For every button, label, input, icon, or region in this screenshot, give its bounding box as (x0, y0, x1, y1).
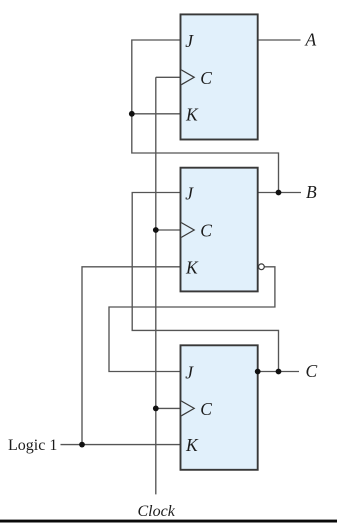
svg-text:Clock: Clock (138, 503, 176, 520)
svg-text:C: C (200, 221, 212, 241)
svg-text:C: C (306, 361, 318, 381)
svg-text:C: C (200, 399, 212, 419)
svg-text:A: A (305, 30, 317, 50)
svg-text:K: K (185, 105, 199, 125)
svg-text:Logic 1: Logic 1 (8, 437, 57, 454)
svg-text:K: K (185, 257, 199, 277)
svg-text:K: K (185, 435, 199, 455)
svg-text:J: J (185, 31, 194, 51)
svg-text:C: C (200, 68, 212, 88)
svg-text:J: J (185, 362, 194, 382)
svg-text:J: J (185, 183, 194, 203)
svg-text:B: B (306, 182, 317, 202)
